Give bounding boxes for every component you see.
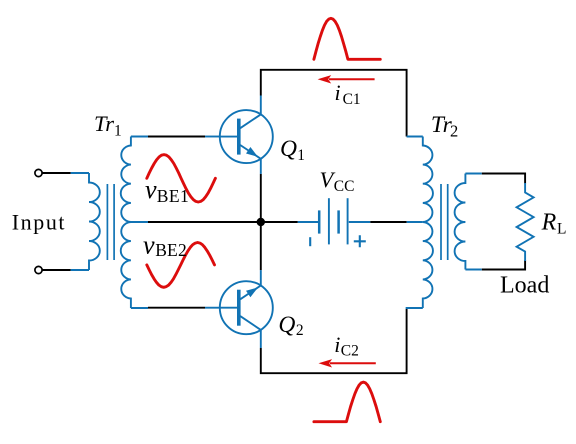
svg-text:i: i bbox=[335, 80, 341, 105]
svg-text:i: i bbox=[334, 332, 340, 357]
svg-text:Load: Load bbox=[500, 273, 549, 299]
svg-text:Tr: Tr bbox=[94, 111, 114, 136]
svg-text:2: 2 bbox=[296, 322, 304, 339]
svg-text:C2: C2 bbox=[341, 343, 359, 360]
svg-text:Q: Q bbox=[278, 312, 295, 338]
svg-text:2: 2 bbox=[450, 121, 458, 140]
svg-text:L: L bbox=[557, 221, 566, 238]
svg-text:1: 1 bbox=[297, 147, 305, 164]
svg-text:Input: Input bbox=[12, 210, 66, 235]
svg-text:v: v bbox=[145, 175, 157, 204]
svg-text:v: v bbox=[143, 231, 155, 260]
svg-text:BE2: BE2 bbox=[155, 240, 187, 260]
svg-text:BE1: BE1 bbox=[157, 186, 189, 206]
svg-text:C1: C1 bbox=[343, 91, 361, 108]
svg-text:R: R bbox=[541, 210, 557, 236]
svg-text:CC: CC bbox=[334, 178, 355, 195]
svg-text:1: 1 bbox=[114, 123, 122, 140]
svg-text:Q: Q bbox=[280, 136, 297, 162]
